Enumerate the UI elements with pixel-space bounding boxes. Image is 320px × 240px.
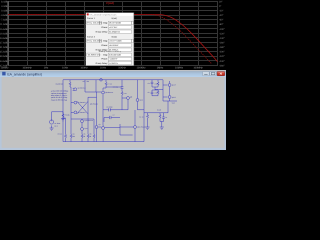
wire x out xyxy=(88,92,97,125)
svg-text:8.4dB: 8.4dB xyxy=(1,0,8,3)
transistor Q5 xyxy=(74,101,77,104)
transistor Q14 xyxy=(81,128,84,131)
wire right long rail xyxy=(143,80,145,142)
resistor RGEN xyxy=(69,80,71,88)
resistor R8 xyxy=(93,119,95,142)
svg-text:Mag:: Mag: xyxy=(103,40,108,43)
resistor R7 xyxy=(103,80,122,91)
svg-text:V(out): V(out) xyxy=(111,35,117,38)
svg-text:-19.6dB: -19.6dB xyxy=(0,32,8,35)
svg-text:20°: 20° xyxy=(219,0,223,3)
resistor R5 xyxy=(81,134,83,141)
wire out column xyxy=(163,80,168,101)
transistor Q13 xyxy=(81,120,84,123)
svg-text:1Hz: 1Hz xyxy=(44,66,49,69)
SCHEMATIC WINDOW xyxy=(0,77,226,150)
svg-text:Phase:: Phase: xyxy=(101,26,108,29)
transistor Q11 xyxy=(168,84,171,87)
ground gnd4 xyxy=(160,127,164,129)
X-block left rail xyxy=(71,97,88,119)
svg-text:Phase:: Phase: xyxy=(101,58,108,61)
resistor R12 xyxy=(157,80,159,87)
wire mid bus xyxy=(103,109,144,111)
SCHEMATIC TITLE BAR xyxy=(0,70,226,77)
svg-text:V(out): V(out) xyxy=(106,1,114,5)
transistor Q12 xyxy=(168,96,171,99)
svg-text:Group Delay:: Group Delay: xyxy=(96,62,109,65)
resistor R6 xyxy=(87,119,89,142)
svg-text:-86.09158°: -86.09158° xyxy=(109,44,119,47)
svg-text:-66.93938 kHz: -66.93938 kHz xyxy=(87,54,100,57)
wire bottom rail xyxy=(63,141,144,143)
svg-text:-60°: -60° xyxy=(219,19,223,22)
svg-text:-43.6dB: -43.6dB xyxy=(0,60,8,63)
zobel R16 xyxy=(146,113,148,127)
svg-text:Cursor 1: Cursor 1 xyxy=(87,17,96,20)
transistor Q9 xyxy=(127,97,130,100)
wire base bus xyxy=(85,91,101,93)
svg-text:-23.877715dB: -23.877715dB xyxy=(109,40,122,43)
svg-text:-140°: -140° xyxy=(219,37,225,40)
svg-text:-1.46873°: -1.46873° xyxy=(109,58,118,61)
svg-text:-15.6dB: -15.6dB xyxy=(0,28,8,31)
left axis labels xyxy=(0,0,8,67)
svg-text:-160°: -160° xyxy=(219,42,225,45)
svg-text:32.49443ms: 32.49443ms xyxy=(109,31,120,34)
svg-text:-27.6dB: -27.6dB xyxy=(0,42,8,45)
ground gnd2 xyxy=(61,119,65,121)
transistor Q15 xyxy=(102,127,105,130)
svg-text:-35.6dB: -35.6dB xyxy=(0,51,8,54)
transistor Q6 xyxy=(74,111,77,114)
svg-text:-23.6dB: -23.6dB xyxy=(0,37,8,40)
resistor R11 xyxy=(121,91,123,109)
transistor Q8 VAS xyxy=(102,91,105,94)
spice directive text block xyxy=(51,90,69,102)
bead circle on rail xyxy=(100,79,103,82)
resistor R3 xyxy=(64,134,66,141)
load R14 xyxy=(159,113,161,122)
grid xyxy=(8,2,218,66)
svg-text:-120°: -120° xyxy=(219,32,225,35)
transistor Q16 xyxy=(134,126,137,129)
resistor R4 xyxy=(70,119,72,142)
svg-text:-220°: -220° xyxy=(219,55,225,58)
svg-text:-200°: -200° xyxy=(219,51,225,54)
svg-text:10Hz: 10Hz xyxy=(62,66,69,69)
svg-text:Group Delay:: Group Delay: xyxy=(96,31,109,34)
wire v2 xyxy=(84,80,86,92)
svg-text:29.037748dB: 29.037748dB xyxy=(109,22,122,25)
red phase curve dashed xyxy=(8,15,212,64)
svg-text:V(out): V(out) xyxy=(111,17,117,20)
wire cross xyxy=(71,101,88,113)
capacitor C5 xyxy=(151,90,158,96)
capacitor C1 inline xyxy=(103,108,122,111)
wire left rail xyxy=(62,80,64,142)
svg-text:Freq: 100.326Hz: Freq: 100.326Hz xyxy=(87,22,102,25)
svg-text:1MHz: 1MHz xyxy=(157,66,164,69)
wire zobel bus xyxy=(144,101,168,113)
svg-text:100MHz: 100MHz xyxy=(193,66,203,69)
svg-text:Cursor 2: Cursor 2 xyxy=(87,35,96,38)
svg-text:-3.6dB: -3.6dB xyxy=(0,14,7,17)
svg-text:EA_amande (amplifier): EA_amande (amplifier) xyxy=(7,73,42,77)
svg-text:-11.6dB: -11.6dB xyxy=(0,23,8,26)
red magnitude curve xyxy=(8,15,218,62)
wire v3 xyxy=(95,80,97,92)
wire q1 down xyxy=(70,93,72,119)
wire top rail xyxy=(63,79,163,81)
resistor R9 input xyxy=(62,112,64,119)
wire output node xyxy=(163,100,177,102)
wire input xyxy=(52,111,63,113)
svg-text:-240°: -240° xyxy=(219,60,225,63)
svg-text:1KHz: 1KHz xyxy=(100,66,107,69)
svg-text:-7.6dB: -7.6dB xyxy=(0,19,7,22)
svg-text:-39.6dB: -39.6dB xyxy=(0,55,8,58)
svg-text:Phase:: Phase: xyxy=(101,44,108,47)
load CL xyxy=(162,113,165,122)
PLOT WINDOW xyxy=(0,0,226,70)
svg-text:-180°: -180° xyxy=(219,46,225,49)
wire bias bottom bus xyxy=(63,118,94,134)
svg-text:100KHz: 100KHz xyxy=(137,66,147,69)
svg-text:-80°: -80° xyxy=(219,23,223,26)
ground gnd3 xyxy=(146,127,150,129)
svg-text:10MHz: 10MHz xyxy=(175,66,184,69)
input boxes xyxy=(87,21,133,64)
voltage source V1 xyxy=(50,120,54,124)
bottom axis labels xyxy=(1,66,204,69)
svg-text:100Hz: 100Hz xyxy=(80,66,88,69)
svg-text:EA_amande-cmp/Vout-curs: EA_amande-cmp/Vout-curs xyxy=(90,14,118,17)
resistor R13 xyxy=(152,90,159,96)
svg-text:-31.6dB: -31.6dB xyxy=(0,46,8,49)
wire pair join xyxy=(152,87,163,90)
svg-text:Mag:: Mag: xyxy=(103,54,108,57)
svg-text:0°: 0° xyxy=(219,5,221,8)
transistor Q10 xyxy=(136,99,139,102)
wire drv bus xyxy=(105,124,134,135)
svg-text:-260°: -260° xyxy=(219,64,225,67)
capacitor C4 xyxy=(151,80,154,87)
svg-text:-40°: -40° xyxy=(219,14,223,17)
svg-text:4.4dB: 4.4dB xyxy=(1,5,8,8)
svg-text:10mHz: 10mHz xyxy=(1,66,10,69)
svg-text:10KHz: 10KHz xyxy=(118,66,126,69)
capacitor C7 inline xyxy=(104,116,120,122)
transistor Q7 xyxy=(95,126,98,129)
svg-text:0.8515574dB: 0.8515574dB xyxy=(109,54,122,57)
wire load join xyxy=(160,122,164,128)
capacitor C6 xyxy=(121,80,124,92)
ground gnd1 xyxy=(50,128,54,130)
svg-text:100mHz: 100mHz xyxy=(22,66,32,69)
right axis labels xyxy=(219,0,225,67)
CURSOR DIALOG xyxy=(86,13,134,66)
component labels xyxy=(54,80,176,138)
svg-text:Freq: 100.32kHz: Freq: 100.32kHz xyxy=(87,40,102,43)
svg-text:-100°: -100° xyxy=(219,28,225,31)
transistor Q1 xyxy=(74,88,77,91)
svg-text:-20°: -20° xyxy=(219,10,223,13)
svg-text:0.4dB: 0.4dB xyxy=(1,10,8,13)
svg-text:46.3885µs: 46.3885µs xyxy=(109,49,118,52)
svg-text:-5.35037s: -5.35037s xyxy=(109,62,118,65)
svg-text:Mag:: Mag: xyxy=(103,22,108,25)
svg-text:-4.07116°: -4.07116° xyxy=(109,26,118,29)
